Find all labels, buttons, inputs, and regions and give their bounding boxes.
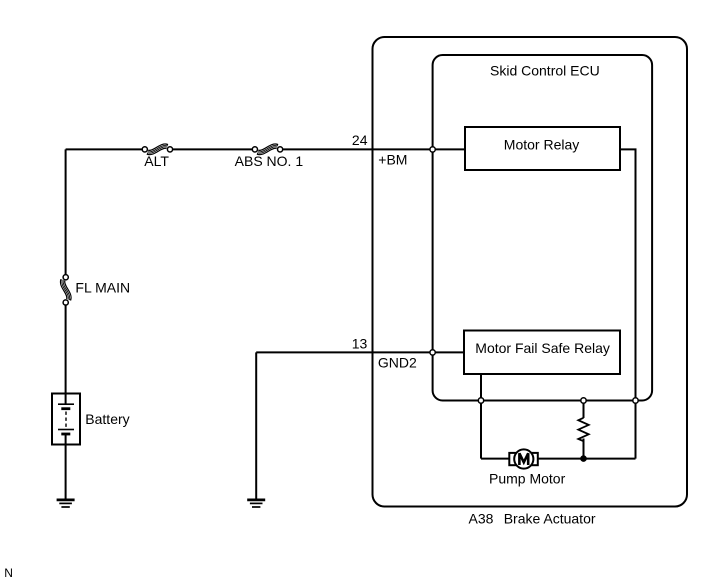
svg-text:Brake Actuator: Brake Actuator xyxy=(504,511,596,527)
svg-text:ALT: ALT xyxy=(144,153,169,169)
svg-text:FL MAIN: FL MAIN xyxy=(75,280,130,296)
svg-text:13: 13 xyxy=(352,336,368,352)
svg-text:A38: A38 xyxy=(469,511,494,527)
svg-text:+BM: +BM xyxy=(378,152,407,168)
svg-text:N: N xyxy=(4,566,13,580)
svg-text:24: 24 xyxy=(352,132,368,148)
svg-text:Battery: Battery xyxy=(85,411,129,427)
svg-text:Skid Control ECU: Skid Control ECU xyxy=(490,62,600,78)
svg-text:Motor Fail Safe Relay: Motor Fail Safe Relay xyxy=(475,340,610,356)
svg-text:ABS NO. 1: ABS NO. 1 xyxy=(235,153,304,169)
svg-text:Pump Motor: Pump Motor xyxy=(489,471,566,487)
svg-text:Motor Relay: Motor Relay xyxy=(504,136,579,152)
svg-text:GND2: GND2 xyxy=(378,354,417,370)
